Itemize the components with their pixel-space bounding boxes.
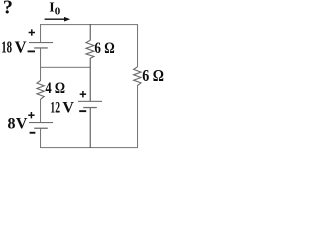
svg-text:V: V [16, 116, 28, 133]
svg-text:?: ? [3, 0, 13, 19]
svg-text:V: V [15, 38, 27, 57]
svg-text:12: 12 [50, 100, 60, 117]
svg-text:V: V [62, 100, 74, 117]
svg-text:8: 8 [8, 116, 16, 133]
svg-text:0: 0 [55, 6, 61, 18]
svg-text:4 Ω: 4 Ω [45, 80, 65, 97]
svg-text:18: 18 [1, 38, 12, 57]
svg-text:6 Ω: 6 Ω [94, 40, 114, 57]
svg-text:6 Ω: 6 Ω [142, 66, 164, 85]
